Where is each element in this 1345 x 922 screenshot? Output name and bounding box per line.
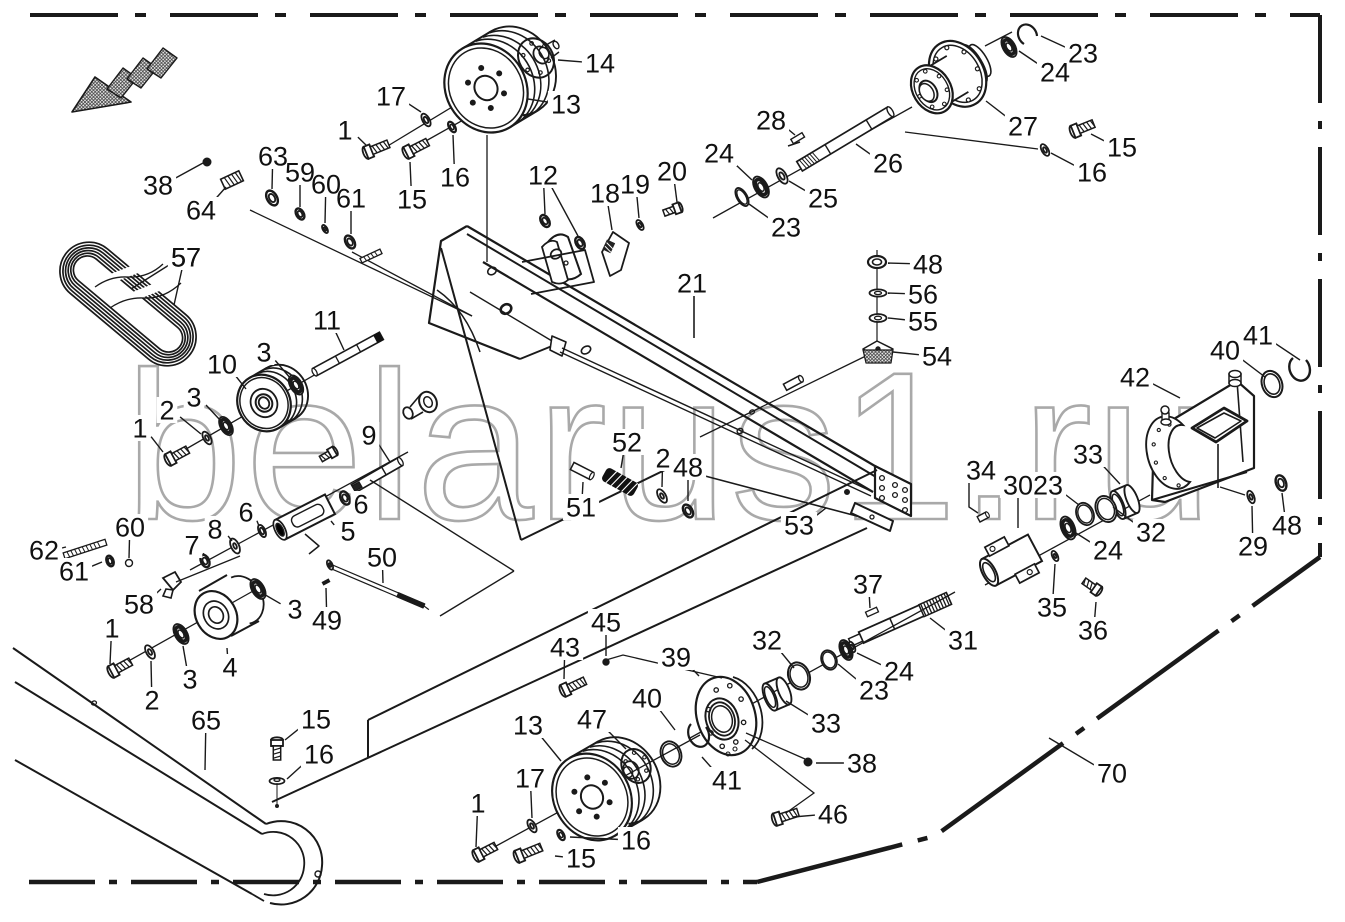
svg-text:32: 32	[752, 626, 782, 656]
svg-text:70: 70	[1097, 759, 1127, 789]
svg-text:58: 58	[124, 590, 154, 620]
svg-text:14: 14	[585, 49, 615, 79]
svg-text:48: 48	[1272, 511, 1302, 541]
svg-text:34: 34	[966, 456, 996, 486]
svg-text:64: 64	[186, 196, 216, 226]
svg-text:39: 39	[661, 643, 691, 673]
svg-text:4: 4	[222, 653, 237, 683]
svg-text:51: 51	[566, 493, 596, 523]
svg-text:60: 60	[115, 513, 145, 543]
svg-text:13: 13	[513, 711, 543, 741]
svg-text:1: 1	[337, 116, 352, 146]
svg-text:15: 15	[397, 185, 427, 215]
svg-text:54: 54	[922, 342, 952, 372]
svg-text:12: 12	[528, 161, 558, 191]
svg-text:3: 3	[256, 338, 271, 368]
svg-text:1: 1	[104, 614, 119, 644]
svg-text:35: 35	[1037, 593, 1067, 623]
svg-text:19: 19	[620, 170, 650, 200]
svg-text:15: 15	[301, 705, 331, 735]
svg-text:61: 61	[336, 184, 366, 214]
svg-text:5: 5	[340, 517, 355, 547]
svg-text:23: 23	[771, 213, 801, 243]
svg-text:36: 36	[1078, 616, 1108, 646]
svg-text:53: 53	[784, 511, 814, 541]
svg-text:2: 2	[144, 686, 159, 716]
svg-text:1: 1	[470, 789, 485, 819]
svg-text:16: 16	[304, 740, 334, 770]
svg-text:41: 41	[712, 766, 742, 796]
svg-text:37: 37	[853, 570, 883, 600]
svg-text:2: 2	[159, 396, 174, 426]
svg-text:40: 40	[1210, 336, 1240, 366]
svg-text:45: 45	[591, 608, 621, 638]
svg-text:3: 3	[287, 595, 302, 625]
svg-text:21: 21	[677, 269, 707, 299]
svg-text:38: 38	[847, 749, 877, 779]
svg-text:20: 20	[657, 157, 687, 187]
svg-text:24: 24	[1093, 536, 1123, 566]
svg-text:15: 15	[566, 844, 596, 874]
svg-text:33: 33	[1073, 440, 1103, 470]
svg-text:48: 48	[673, 453, 703, 483]
svg-text:16: 16	[621, 826, 651, 856]
svg-text:24: 24	[704, 139, 734, 169]
svg-text:1: 1	[132, 414, 147, 444]
svg-text:55: 55	[908, 307, 938, 337]
svg-text:41: 41	[1243, 321, 1273, 351]
svg-text:42: 42	[1120, 363, 1150, 393]
svg-text:18: 18	[590, 179, 620, 209]
svg-text:32: 32	[1136, 518, 1166, 548]
svg-text:62: 62	[29, 536, 59, 566]
svg-text:57: 57	[171, 243, 201, 273]
svg-text:40: 40	[632, 684, 662, 714]
svg-text:63: 63	[258, 142, 288, 172]
svg-text:30: 30	[1003, 471, 1033, 501]
svg-text:65: 65	[191, 706, 221, 736]
svg-text:50: 50	[367, 543, 397, 573]
svg-text:7: 7	[184, 531, 199, 561]
svg-text:33: 33	[811, 709, 841, 739]
svg-text:11: 11	[313, 306, 341, 336]
svg-text:46: 46	[818, 800, 848, 830]
svg-text:61: 61	[59, 557, 89, 587]
svg-text:13: 13	[551, 90, 581, 120]
svg-text:17: 17	[515, 764, 545, 794]
svg-text:23: 23	[1068, 39, 1098, 69]
svg-text:28: 28	[756, 106, 786, 136]
svg-text:2: 2	[655, 444, 670, 474]
svg-text:16: 16	[1077, 158, 1107, 188]
svg-text:23: 23	[859, 676, 889, 706]
svg-text:56: 56	[908, 280, 938, 310]
svg-text:48: 48	[913, 250, 943, 280]
svg-text:52: 52	[612, 428, 642, 458]
svg-text:9: 9	[361, 421, 376, 451]
svg-text:38: 38	[143, 171, 173, 201]
svg-text:27: 27	[1008, 112, 1038, 142]
svg-text:47: 47	[577, 705, 607, 735]
svg-text:49: 49	[312, 606, 342, 636]
svg-text:15: 15	[1107, 133, 1137, 163]
svg-text:3: 3	[182, 665, 197, 695]
svg-text:6: 6	[238, 498, 253, 528]
svg-text:24: 24	[1040, 58, 1070, 88]
svg-text:8: 8	[207, 515, 222, 545]
svg-text:6: 6	[353, 490, 368, 520]
svg-text:17: 17	[376, 82, 406, 112]
svg-text:25: 25	[808, 184, 838, 214]
svg-text:23: 23	[1033, 471, 1063, 501]
svg-text:16: 16	[440, 163, 470, 193]
svg-text:29: 29	[1238, 532, 1268, 562]
svg-text:26: 26	[873, 149, 903, 179]
svg-text:43: 43	[550, 633, 580, 663]
svg-text:10: 10	[207, 350, 237, 380]
svg-text:3: 3	[186, 383, 201, 413]
svg-text:31: 31	[948, 626, 978, 656]
